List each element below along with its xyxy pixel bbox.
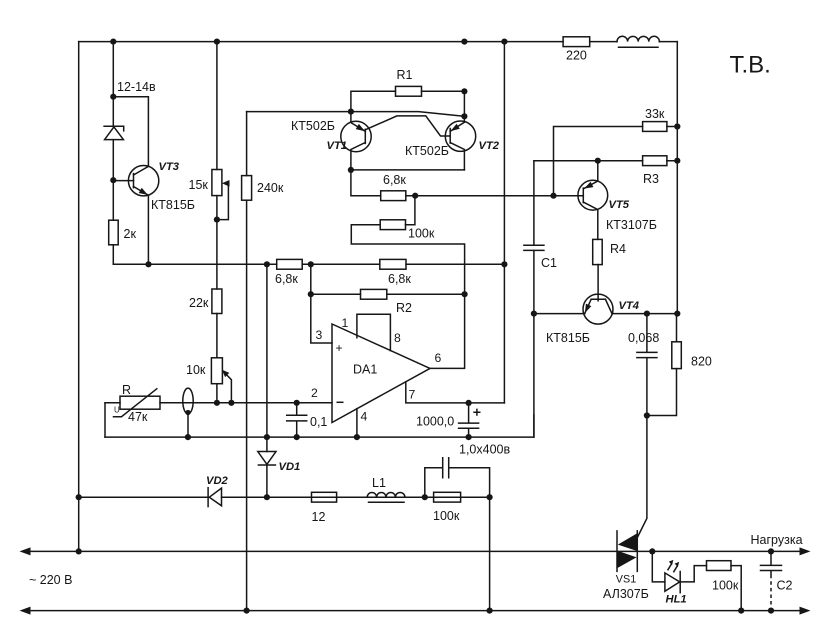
svg-text:12: 12 [312, 510, 326, 524]
arrow load lower right [800, 607, 811, 615]
svg-text:820: 820 [691, 355, 712, 369]
capacitor 0,068 [628, 314, 659, 416]
svg-text:22к: 22к [189, 296, 209, 310]
svg-text:6,8к: 6,8к [383, 173, 406, 187]
node 15k wiper return [214, 217, 220, 223]
svg-text:R4: R4 [610, 242, 626, 256]
svg-text:240к: 240к [257, 181, 284, 195]
node zener 12-14v tap [110, 94, 116, 100]
resistor 22k [189, 289, 222, 314]
wire R2 line [311, 293, 465, 295]
inductor top filter choke [617, 36, 659, 47]
node 0,1 top on input line [294, 400, 300, 406]
node C2 bottom on lower mains [768, 608, 774, 614]
wire LED to 100k [680, 566, 706, 582]
svg-text:~ 220 В: ~ 220 В [29, 573, 72, 587]
svg-text:КТ502Б: КТ502Б [405, 144, 449, 158]
wire LED branch [652, 551, 665, 582]
capacitor 1,0x400v (parallel) [425, 458, 490, 497]
svg-text:КТ815Б: КТ815Б [546, 331, 590, 345]
wire 100k right lead up [406, 196, 415, 225]
wire rectifier line y497 [79, 496, 490, 498]
svg-text:47к: 47к [128, 410, 148, 424]
node C1 bottom to VT4 emitter line [531, 311, 537, 317]
wire 15k branch x217 [216, 42, 218, 403]
wire pins 1-8 strap [357, 314, 391, 350]
resistor 240k [242, 176, 284, 201]
node snubber right junction [487, 494, 493, 500]
svg-text:12-14в: 12-14в [117, 80, 156, 94]
svg-text:КТ815Б: КТ815Б [151, 198, 195, 212]
wire R3 line [534, 160, 677, 162]
svg-text:VD1: VD1 [279, 461, 301, 473]
svg-text:C1: C1 [541, 256, 557, 270]
svg-text:R1: R1 [397, 68, 413, 82]
svg-text:6,8к: 6,8к [388, 272, 411, 286]
node 10k bottom on input line [214, 400, 220, 406]
svg-text:3: 3 [316, 328, 323, 342]
resistor 820 [672, 342, 712, 369]
wire 33k branch [554, 127, 678, 196]
wire VT4 emitter line to C1 [534, 313, 585, 315]
node top rail junction x113 [110, 39, 116, 45]
node anode junction on mains line [649, 548, 655, 554]
wire pin4 to ground rail [356, 409, 358, 437]
svg-text:7: 7 [409, 388, 416, 402]
transistor VT2 KT502B [445, 121, 475, 170]
node 100k left junction [422, 494, 428, 500]
wire right vertical [676, 42, 678, 314]
svg-text:100к: 100к [433, 509, 460, 523]
wire top supply rail [79, 41, 678, 43]
wire 240k branch x246 [246, 112, 248, 610]
svg-text:Нагрузка: Нагрузка [751, 533, 803, 547]
node 0,068 tap [644, 311, 650, 317]
svg-text:2к: 2к [124, 227, 137, 241]
node divider rail end at x504 [501, 261, 507, 267]
svg-text:VT3: VT3 [159, 161, 180, 173]
svg-text:VD2: VD2 [206, 475, 229, 487]
svg-text:6,8к: 6,8к [275, 272, 298, 286]
wire zener branch x113 [113, 42, 148, 265]
resistor R3 [643, 156, 667, 186]
node left border on rectifier line [76, 494, 82, 500]
node 33k drop on VT5 base line [550, 193, 556, 199]
svg-text:R2: R2 [396, 301, 412, 315]
wire mains line lower [27, 610, 802, 612]
op-amp DA1 [332, 324, 430, 423]
node VT3 base junction [110, 177, 116, 183]
svg-text:HL1: HL1 [666, 594, 687, 606]
diode VD2 [208, 488, 221, 507]
wire 100k to lower mains [731, 566, 741, 611]
lamp ellipse on input line [183, 388, 193, 437]
wire output pin6 [430, 294, 465, 368]
svg-text:4: 4 [361, 410, 368, 424]
node 1000,0 bottom on ground rail [466, 434, 472, 440]
svg-text:6: 6 [435, 351, 442, 365]
svg-text:0,068: 0,068 [628, 331, 659, 345]
svg-text:VT2: VT2 [479, 140, 500, 152]
wire left border [78, 42, 80, 552]
diode VD1 [258, 452, 276, 466]
wire snubber node to lower mains [489, 497, 491, 610]
wire thyristor gate [637, 416, 647, 538]
node VT5 emitter on R3 line [595, 158, 601, 164]
svg-text:100к: 100к [712, 579, 739, 593]
zener diode VD [104, 126, 124, 139]
wire emitters rail y111 [247, 112, 465, 117]
svg-text:КТ502Б: КТ502Б [291, 119, 335, 133]
node 0,1 bottom on ground rail [294, 434, 300, 440]
svg-text:+: + [336, 341, 343, 355]
resistor 6,8k (right divider) [380, 259, 412, 286]
wire pin7 to x504 vertical [406, 382, 505, 403]
transistor VT1 KT502B [341, 112, 371, 170]
node 10k wiper on input line [228, 400, 234, 406]
svg-text:C2: C2 [777, 579, 793, 593]
wire VT3 emitter to lower node [147, 195, 149, 264]
resistor 100k (LED) [707, 561, 739, 593]
transistor VT4 KT815B [583, 265, 613, 325]
node top rail junction x504 [501, 39, 507, 45]
transistor VT3 KT815B [128, 166, 158, 196]
wire VT1 collector down to 6,8k [351, 170, 381, 196]
node divider to pin3 branch [308, 261, 314, 267]
resistor 100k (snubber) [433, 492, 461, 523]
wire divider rail y264 [113, 263, 504, 265]
wire ground rail y437 [105, 415, 534, 437]
node top rail junction x464 [461, 39, 467, 45]
wire VT4 collector line [612, 313, 677, 315]
resistor 2k [109, 220, 137, 245]
node top rail junction x217 [214, 39, 220, 45]
resistor 15k trimmer [189, 170, 230, 220]
wire VD1 branch [266, 264, 268, 497]
wire collectors join y170 [351, 169, 465, 171]
svg-text:U: U [114, 406, 120, 415]
node VT3 emitter junction [145, 261, 151, 267]
thyristor VS1 (triac) [617, 530, 637, 572]
wire R1 left lead [351, 91, 396, 111]
wire 12-14v tap to VT3 collector [113, 97, 148, 167]
svg-text:33к: 33к [645, 107, 665, 121]
wire 820 leads [647, 314, 677, 416]
node snubber on lower mains [487, 608, 493, 614]
resistor 220 [563, 37, 590, 63]
svg-text:220: 220 [566, 49, 587, 63]
arrow mains lower left [20, 607, 31, 615]
wire x504 vertical (top rail to pin7) [503, 42, 505, 403]
node VT1 emitter rail junction [348, 109, 354, 115]
arrow mains upper left [20, 547, 31, 555]
svg-text:VT5: VT5 [609, 199, 630, 211]
svg-text:КТ3107Б: КТ3107Б [606, 218, 657, 232]
node 33k right on x677 [674, 123, 680, 129]
resistor 33k [643, 107, 667, 131]
node R3 right on x677 [674, 158, 680, 164]
node C2 top on mains line [768, 548, 774, 554]
resistor 12 [312, 492, 337, 524]
capacitor 1000,0 [416, 403, 481, 437]
node R2 left junction [308, 291, 314, 297]
svg-text:1000,0: 1000,0 [416, 415, 454, 429]
svg-text:VT4: VT4 [619, 300, 640, 312]
varistor R 47k [114, 383, 161, 424]
svg-text:Т.В.: Т.В. [730, 52, 771, 79]
wire 6,8k to VT5 base [406, 195, 584, 197]
arrow load upper right [800, 547, 811, 555]
node pin4 on ground rail [354, 434, 360, 440]
resistor 100k (feedback) [380, 220, 435, 241]
node LED resistor on lower mains [738, 608, 744, 614]
resistor R4 [593, 239, 626, 264]
node divider to VD1 branch [264, 261, 270, 267]
wire VT3 base lead [113, 180, 133, 182]
node VD1 top on ground rail [264, 434, 270, 440]
svg-text:L1: L1 [372, 476, 386, 490]
node VT1 collector junction [348, 167, 354, 173]
node 100k tap junction [412, 193, 418, 199]
resistor 6,8k (collector line) [381, 173, 407, 201]
svg-text:10к: 10к [186, 363, 206, 377]
node 240k bottom on mains lower line [244, 608, 250, 614]
svg-text:0,1: 0,1 [310, 415, 327, 429]
svg-text:R: R [122, 383, 131, 397]
capacitor C2 [761, 551, 793, 607]
wire input line y402.8 [105, 402, 332, 404]
svg-text:R3: R3 [643, 172, 659, 186]
wire mains line upper ~220V [27, 550, 802, 552]
node lamp on ground rail [185, 434, 191, 440]
svg-text:15к: 15к [189, 178, 209, 192]
node 1000,0 top on pin7 line [466, 400, 472, 406]
wire input left drop to ground rail [104, 403, 106, 437]
inductor L1 [367, 476, 405, 502]
node VT2 emitter rail junction [461, 113, 467, 119]
node VD1 bottom on rectifier line [264, 494, 270, 500]
wire pin3 branch [311, 264, 332, 343]
resistor R1 [396, 68, 422, 96]
svg-text:АЛ307Б: АЛ307Б [603, 587, 649, 601]
svg-text:DA1: DA1 [353, 363, 377, 377]
node R1 right top rail drop [461, 88, 467, 94]
svg-text:2: 2 [311, 386, 318, 400]
LED HL1 [665, 560, 680, 593]
svg-text:VS1: VS1 [616, 574, 636, 586]
resistor 6,8k (left divider) [275, 259, 302, 286]
node x677 end on collector line [674, 311, 680, 317]
transistor VT5 KT3107B [578, 161, 608, 240]
resistor 10k trimmer [186, 358, 231, 403]
svg-text:1,0х400в: 1,0х400в [459, 443, 510, 457]
svg-text:8: 8 [394, 331, 401, 345]
node gate junction [644, 412, 650, 418]
svg-text:1: 1 [342, 316, 349, 330]
resistor R2 [361, 289, 413, 315]
node R2 right on output vertical [462, 291, 468, 297]
capacitor 0,1 [287, 403, 328, 437]
node left border to mains line [76, 548, 82, 554]
wire 100k left lead to output vertical [351, 225, 464, 295]
wire R1 right lead [422, 91, 465, 122]
svg-text:VT1: VT1 [327, 140, 348, 152]
svg-text:100к: 100к [408, 227, 435, 241]
capacitor C1 [524, 161, 557, 437]
wire VT1-VT2 base link [365, 116, 450, 136]
